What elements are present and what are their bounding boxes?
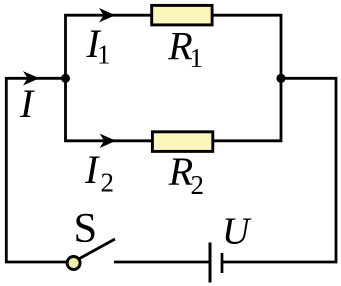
arrowhead I on input feed — [23, 71, 39, 85]
switch S pivot circle — [67, 257, 80, 270]
wire: top branch left + left rail of parallel section + bottom branch left — [66, 15, 153, 141]
wire: switch fixed contact to battery long plate — [114, 261, 210, 264]
svg-text:I: I — [84, 147, 100, 192]
resistor R1 — [152, 5, 212, 25]
svg-text:1: 1 — [97, 40, 111, 70]
svg-text:1: 1 — [190, 43, 204, 73]
svg-text:R: R — [168, 149, 193, 194]
node A junction dot — [61, 74, 70, 83]
wire: node B to right outer rail + down + bottom to battery — [222, 78, 336, 262]
battery long plate (positive) — [209, 243, 212, 283]
wire: input feed to node A — [6, 77, 65, 80]
switch S lever — [75, 239, 115, 261]
arrowhead I1 on top branch — [99, 8, 115, 22]
svg-text:2: 2 — [101, 168, 115, 198]
arrowhead I2 on bottom branch — [100, 134, 116, 148]
svg-text:2: 2 — [191, 170, 205, 200]
svg-text:U: U — [222, 211, 252, 253]
node B junction dot — [276, 74, 285, 83]
wire: top branch right + right rail of parallel section + bottom branch right — [212, 15, 281, 141]
resistor R2 — [152, 132, 212, 152]
wire: left outer rail down + bottom-left to switch — [6, 77, 68, 262]
svg-text:S: S — [74, 205, 98, 252]
svg-text:I: I — [19, 81, 35, 126]
battery short plate (negative) — [221, 253, 224, 273]
